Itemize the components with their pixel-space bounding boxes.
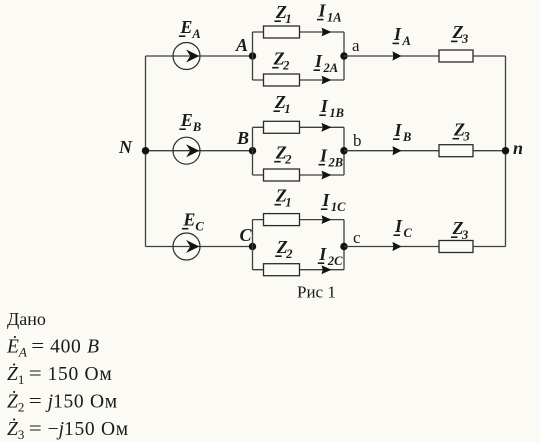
source EC (EMF source, phase C) (173, 233, 200, 260)
label I1B (319, 96, 344, 120)
label Z1 (phase A) (274, 2, 291, 26)
current arrow I2A (322, 76, 332, 85)
wire: Z3 to right bus (phase B) (473, 150, 506, 152)
source EB (EMF source, phase B) (173, 137, 200, 164)
label I1C (321, 190, 346, 214)
label Z2 (phase B) (274, 143, 291, 167)
impedance Z2 (phase C) (264, 264, 300, 276)
wire: node b to Z3 (phase B line) (344, 150, 439, 152)
wire: parallel-section right vertical (phase B) (343, 127, 345, 175)
label Z1 (phase C) (274, 186, 291, 210)
label Z1 (phase B) (273, 92, 290, 116)
svg-text:a: a (352, 36, 360, 55)
node a (340, 52, 348, 60)
node c (340, 243, 348, 251)
label Z3 (phase B) (453, 120, 470, 144)
label Z2 (phase C) (275, 237, 292, 261)
current arrow I1B (322, 123, 332, 132)
svg-text:b: b (353, 131, 362, 150)
current arrow I2C (322, 265, 332, 274)
impedance Z3 (phase C) (439, 241, 473, 253)
label I2C (318, 244, 343, 268)
svg-text:C: C (240, 225, 253, 245)
current arrow IB (line current) (393, 146, 402, 155)
wire: Z3 to right bus (phase C) (473, 246, 506, 248)
current arrow IC (line current) (393, 242, 402, 251)
wire: node a to Z3 (phase A line) (344, 55, 439, 57)
current arrow I1C (322, 215, 332, 224)
impedance Z1 (phase B) (264, 121, 300, 133)
svg-text:n: n (513, 138, 523, 158)
label EC (182, 210, 205, 234)
svg-text:Ż2 = j150 Ом: Ż2 = j150 Ом (7, 392, 118, 415)
svg-text:A: A (235, 35, 248, 55)
node A (249, 52, 257, 60)
node C (249, 243, 257, 251)
node B (249, 147, 257, 155)
wire: top branch (phase C) (253, 219, 345, 221)
impedance Z1 (phase C) (264, 214, 300, 226)
wire: bottom branch (phase A) (253, 79, 345, 81)
wire: parallel-section left vertical (phase A) (252, 32, 254, 80)
impedance Z2 (phase B) (264, 169, 300, 181)
label Z3 (phase C) (451, 218, 468, 242)
label EB (179, 110, 201, 134)
impedance Z2 (phase A) (264, 74, 300, 86)
wire: parallel-section right vertical (phase A) (343, 32, 345, 80)
current arrow I1A (322, 28, 332, 37)
wire: left bus to node B (phase B feed) (146, 150, 253, 152)
label IB (393, 120, 411, 144)
label IA (393, 24, 411, 48)
wire: parallel-section right vertical (phase C) (343, 220, 345, 270)
wire: left bus to node C (phase C feed) (146, 246, 253, 248)
wire: right bus (load neutral) (505, 56, 507, 247)
wire: left neutral bus (145, 56, 147, 247)
wire: parallel-section left vertical (phase B) (252, 127, 254, 175)
svg-text:c: c (353, 228, 361, 247)
wire: top branch (phase A) (253, 31, 345, 33)
wire: bottom branch (phase C) (253, 269, 345, 271)
label I2B (319, 146, 344, 170)
wire: parallel-section left vertical (phase C) (252, 220, 254, 270)
svg-text:Дано: Дано (7, 309, 46, 329)
wire: top branch (phase B) (253, 126, 345, 128)
wire: node c to Z3 (phase C line) (344, 246, 439, 248)
impedance Z3 (phase B) (439, 145, 473, 157)
node N (neutral of sources) (142, 147, 150, 155)
svg-text:Рис 1: Рис 1 (297, 283, 336, 302)
wire: bottom branch (phase B) (253, 174, 345, 176)
impedance Z1 (phase A) (264, 26, 300, 38)
node b (340, 147, 348, 155)
source EA (EMF source, phase A) (173, 43, 200, 70)
wire: Z3 to right bus (phase A) (473, 55, 506, 57)
current arrow IA (line current) (393, 51, 402, 60)
impedance Z3 (phase A) (439, 50, 473, 62)
label Z2 (phase A) (272, 49, 289, 73)
label I2A (314, 51, 339, 75)
node n (load neutral point) (502, 147, 510, 155)
label I1A (317, 0, 342, 24)
label EA (179, 17, 201, 41)
label IC (394, 216, 413, 240)
label Z3 (phase A) (451, 22, 468, 46)
wire: left bus to node A (phase A feed) (146, 55, 253, 57)
svg-text:Ż3 = −j150 Ом: Ż3 = −j150 Ом (7, 419, 129, 442)
current arrow I2B (322, 171, 332, 180)
svg-text:N: N (118, 137, 133, 157)
svg-text:B: B (236, 128, 249, 148)
